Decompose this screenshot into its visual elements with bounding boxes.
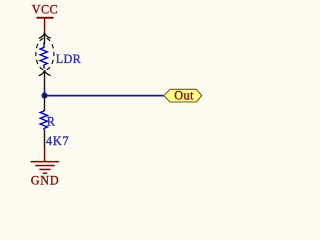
svg-text:Out: Out bbox=[174, 89, 194, 103]
junction node bbox=[42, 93, 48, 99]
resistor R bottom pin bbox=[44, 130, 46, 148]
ground bar 4 bbox=[43, 173, 47, 174]
ground terminal pin bbox=[44, 148, 46, 162]
svg-text:R: R bbox=[47, 115, 56, 129]
svg-text:VCC: VCC bbox=[32, 3, 58, 17]
ground bar 2 bbox=[35, 165, 55, 167]
power terminal VCC pin bbox=[44, 18, 46, 30]
wire node to Out bbox=[45, 95, 164, 97]
LDR top arrow bbox=[39, 33, 51, 39]
ground bar 3 bbox=[39, 169, 50, 171]
ground bar 1 bbox=[31, 161, 60, 163]
svg-text:LDR: LDR bbox=[56, 52, 82, 66]
LDR resistor zigzag bbox=[40, 42, 47, 68]
resistor R zigzag bbox=[40, 110, 47, 131]
LDR bottom arrow bbox=[39, 70, 51, 76]
svg-text:GND: GND bbox=[31, 173, 60, 187]
power terminal VCC bar bbox=[36, 17, 53, 19]
wire node to LDR bbox=[44, 88, 46, 96]
LDR bottom pin bbox=[44, 70, 46, 88]
resistor R top pin bbox=[44, 96, 46, 111]
LDR top pin bbox=[44, 31, 46, 44]
svg-text:4K7: 4K7 bbox=[46, 134, 69, 148]
port Out hexagon bbox=[164, 89, 202, 102]
LDR dashed ellipse bbox=[36, 38, 54, 70]
